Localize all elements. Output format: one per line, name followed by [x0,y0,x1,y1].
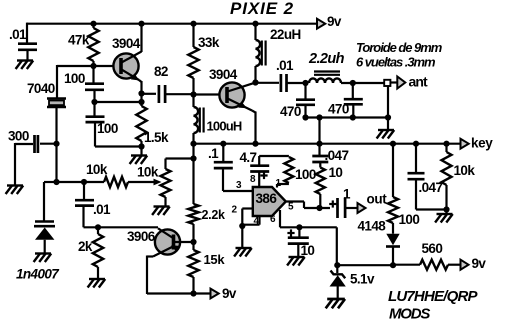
svg-text:82: 82 [154,64,168,79]
connector key terminal [461,139,469,149]
wire Q3 emitter [147,256,153,295]
wire .01 bypass stub [26,23,28,45]
node 1.5k bottom [138,143,144,155]
resistor 100 (gain) [277,157,293,188]
ground (below zener) [326,299,345,308]
svg-text:.1: .1 [208,146,219,161]
svg-text:6 vueltas .3mm: 6 vueltas .3mm [356,55,436,70]
wire pin2 [242,209,253,248]
label key [471,136,493,151]
label Q1 3904 [112,36,141,51]
label 100uH [207,118,242,133]
svg-text:7040: 7040 [27,81,55,96]
label .01 PI [276,58,294,73]
svg-text:1: 1 [343,187,351,202]
node Q2 collector [252,79,258,85]
label 22uH [270,27,301,42]
wire crystal node down [55,144,57,182]
ground (below pot) [152,207,170,216]
capacitor 4.7 [250,156,289,187]
capacitor .047 (second) [408,144,447,210]
potentiometer wiper arrow [154,179,162,186]
node PI bus/ground [385,114,391,120]
svg-text:470: 470 [328,102,349,117]
label 7040 [27,81,55,96]
crystal 7040 [47,99,66,144]
node keyline/100-4148 [390,141,396,147]
svg-text:1n4007: 1n4007 [16,267,60,282]
label 9v bottom-right [472,256,487,271]
node PI bus/keyline tap [316,114,322,120]
svg-text:100: 100 [97,121,118,136]
svg-text:4.7: 4.7 [240,150,257,165]
ground (PI filter) [377,130,395,139]
svg-text:100: 100 [295,167,316,182]
node rail/Q1 [138,21,144,27]
svg-text:10: 10 [329,165,343,180]
svg-text:4148: 4148 [358,219,387,234]
plus 1uF [329,200,336,207]
node keyline/.1 [220,141,226,147]
wire Q2 emitter [252,111,256,144]
node rail/33k [190,21,196,27]
label 2k [78,239,93,254]
connector 9v (top rail) [317,19,325,29]
node out/10ohm [316,205,322,211]
wire zener bus [337,264,393,266]
transistor Q1 3904 [113,52,141,84]
node PI bus/470 input [302,114,308,120]
node PI input [302,80,308,86]
wire Q2 collector node [254,25,256,40]
label ant [409,74,429,90]
op-amp U1 386 [253,187,286,216]
label pin1 [276,178,282,189]
label 2.2k [202,208,225,222]
resistor 2k [93,227,103,278]
svg-text:10k: 10k [86,162,108,177]
wire RX node to 10k [57,181,105,183]
svg-text:.01: .01 [276,58,294,73]
label 33k [198,35,220,50]
svg-text:9v: 9v [222,286,237,301]
label pin3 [236,180,242,191]
svg-text:100: 100 [399,212,420,227]
wire keyline drop [192,144,194,204]
label .047 second [419,180,443,195]
label 5.1v [350,272,375,287]
svg-text:MODS: MODS [389,305,430,322]
svg-text:PIXIE 2: PIXIE 2 [230,0,294,18]
svg-text:2.2uh: 2.2uh [308,51,345,67]
label out [367,192,388,207]
label LU7HHE/QRP [388,288,478,305]
svg-text:22uH: 22uH [270,27,301,42]
label pin8 [250,174,256,185]
label 470 input [280,104,301,119]
label 10k pot [137,165,159,180]
node crystal/300 [53,141,59,147]
svg-text:470: 470 [280,104,301,119]
wire PI ground bus [306,117,389,118]
node 10uF tap [296,224,302,230]
svg-text:1.5k: 1.5k [144,130,169,145]
capacitor 300 [15,135,57,186]
wire ant ground drop [387,84,389,130]
svg-text:key: key [471,136,493,151]
ground (below 300) [6,186,24,195]
svg-text:33k: 33k [198,35,220,50]
label 47k [68,33,90,48]
svg-text:386: 386 [256,191,278,206]
ground (below 2k) [88,279,106,288]
plus 4.7 [260,172,267,179]
node zener [334,262,340,268]
wire bottom 9v line [147,292,210,294]
plus 10uF [287,229,294,236]
ground (386 pins 2,4) [234,248,252,257]
label 10 key [329,165,343,180]
label 300 [8,129,29,144]
capacitor 470 (input) [296,83,315,118]
wire Q1 base [94,65,115,67]
wire mid to Q1 emitter [95,101,142,103]
node PI bus/470 output [350,114,356,120]
svg-text:.01: .01 [93,202,111,217]
label MODS [389,305,430,322]
svg-text:9v: 9v [472,256,487,271]
wire key line [194,143,462,145]
inductor 100uH [194,95,204,144]
node keyline/10k [443,141,449,147]
resistor 15k [188,242,198,294]
label Q2 3904 [209,67,238,82]
node pot top wire [190,155,196,161]
svg-text:15k: 15k [204,252,226,267]
wire Q1 emitter [139,80,142,106]
node emitter/82 [138,90,144,96]
label 4148 [358,219,387,234]
node 100 caps mid [91,99,97,105]
wire base to crystal [57,65,94,99]
connector 9v (bottom left) [211,289,219,299]
svg-text:2.2k: 2.2k [202,208,225,222]
label 2.2uh [308,51,345,67]
node RX junction [53,179,59,185]
svg-text:9v: 9v [327,14,342,29]
node RX/.01 [81,179,87,185]
wire top 9v rail [27,23,318,25]
label 6 vueltas .3mm [356,55,436,70]
label 10 supply [301,243,315,258]
node pin2/4 [239,223,245,229]
wire pin6 to zener [336,227,338,265]
ground (below 10uF) [287,257,305,266]
svg-text:3904: 3904 [112,36,141,51]
potentiometer 10k [161,159,194,207]
node PI output [350,80,356,86]
resistor 1.5k [136,106,146,147]
svg-text:out: out [367,192,388,207]
capacitor .01 (top-left bypass) [18,44,37,60]
label 9v bottom-left [222,286,237,301]
label .01 RX [93,202,111,217]
svg-text:100uH: 100uH [207,118,242,133]
capacitor 1 (output) [338,198,358,218]
svg-text:3906: 3906 [127,229,156,244]
inductor 2.2uh toroid [309,72,341,84]
label 100 gain [295,167,316,182]
ground (below 1n4007) [34,254,52,263]
wire toroid to ant [341,81,398,84]
svg-text:10k: 10k [454,163,476,178]
transistor Q2 3904 [219,82,255,111]
node keyline/PI tap [316,141,322,147]
node rail/47k [90,21,96,27]
node keyline left T [190,141,196,147]
capacitor .01 (PA coupling) [256,74,306,92]
resistor 10k (RX series) [104,177,155,187]
node Q1 base [90,63,96,69]
label 100 key [399,212,420,227]
node 4148/560 [390,262,396,268]
svg-text:Toroide de 9mm: Toroide de 9mm [356,40,443,55]
node Q2 base [190,91,196,97]
node Q3 base [190,239,196,245]
svg-text:3904: 3904 [209,67,238,82]
wire pin6 [280,210,337,227]
svg-text:300: 300 [8,129,29,144]
svg-text:100: 100 [64,71,85,86]
label Toroide de 9mm [356,40,443,55]
svg-text:.01: .01 [9,27,27,42]
label 100 lower [97,121,118,136]
resistor 10 (key) [316,168,325,209]
wire pin5 out [286,202,330,209]
label pin4 [254,216,260,227]
svg-text:560: 560 [422,241,443,256]
label pin5 [288,202,294,213]
label title PIXIE 2 [230,0,294,18]
resistor 560 [393,260,460,270]
ground (below 1.5k) [130,156,148,165]
capacitor 82 [142,85,194,103]
label 1.5k [144,130,169,145]
capacitor .01 (RX coupling) [75,182,94,227]
capacitor 10 (supply bypass) [288,227,309,256]
label 9v top [327,14,342,29]
svg-text:.047: .047 [419,180,443,195]
svg-text:5.1v: 5.1v [350,272,375,287]
node rail/22uH [252,21,258,27]
inductor 22uH [256,40,266,83]
label pin2 [232,205,238,216]
diode 1n4007 [34,222,55,254]
label .047 first [325,148,349,163]
svg-text:LU7HHE/QRP: LU7HHE/QRP [388,288,478,305]
svg-text:47k: 47k [68,33,90,48]
svg-text:10k: 10k [137,165,159,180]
label 10k key [454,163,476,178]
diode 1n4007 branch [44,182,57,221]
node keyline/Q2emitter [252,141,258,147]
node emitter/100mid [138,99,144,105]
node 2k junction [95,224,101,230]
wire pin4 [242,216,259,225]
connector ant terminal [384,77,405,89]
ground (below .01 bypass) [16,61,34,70]
capacitor 470 (output) [344,83,363,118]
resistor 33k [188,24,198,95]
capacitor 100 (lower) [86,102,142,147]
label Q3 3906 [127,229,156,244]
svg-text:2k: 2k [78,239,93,254]
label 1n4007 [16,267,60,282]
label pin6 [270,214,276,225]
resistor 47k [88,24,98,66]
label 1 output [343,187,351,202]
ground (below 10k key) [435,214,453,223]
resistor 10k (key) [442,144,452,214]
label 10k RX [86,162,108,177]
capacitor 100 (upper) [85,66,104,102]
diode 4148 [386,234,400,266]
label .1 [208,146,219,161]
label 15k [204,252,226,267]
label .01 top-left [9,27,27,42]
transistor Q3 3906 [153,228,194,256]
svg-text:ant: ant [409,74,429,90]
connector 9v (bottom right) [461,260,469,270]
resistor 100 (key) [388,144,398,234]
wire Q1 collector [140,24,142,52]
label 82 [154,64,168,79]
diode zener 5.1v [330,265,346,298]
label 4.7 [240,150,257,165]
node 10k/.047 bottom [443,206,449,212]
wire .01 to Q3 [84,226,159,228]
label 560 [422,241,443,256]
label 100 upper [64,71,85,86]
capacitor .047 (first) [312,144,328,168]
capacitor .1 [214,144,254,191]
label 470 output [328,102,349,117]
node 15k bottom [190,290,196,296]
svg-text:.047: .047 [325,148,349,163]
wire Q2 base [194,93,221,95]
resistor 2.2k [188,204,198,242]
wire PI tap [318,118,320,144]
node keyline/.047 [413,141,419,147]
connector out terminal [358,203,366,213]
